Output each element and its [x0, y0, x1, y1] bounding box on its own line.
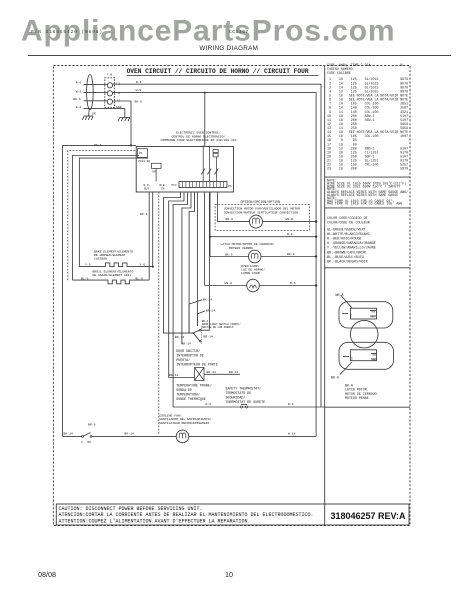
svg-text:NO: NO — [372, 311, 376, 314]
svg-text:ALWAYS REPLACE WIRES WITH SAME: ALWAYS REPLACE WIRES WITH SAME GAUGE — [327, 193, 398, 197]
thermostat S2 — [241, 406, 243, 408]
main circuit — [63, 68, 325, 444]
right column: wire table, notes, color code, latch motor — [327, 63, 408, 264]
footer — [38, 570, 233, 579]
svg-text:23 18 200: 23 18 200 5979 — [327, 167, 408, 171]
svg-text:NO: NO — [373, 354, 377, 357]
svg-text:R-6: R-6 — [76, 81, 82, 85]
wire W-9 bus — [113, 93, 317, 437]
wire cooling fan right — [189, 435, 316, 437]
supply cable bundle — [87, 75, 94, 110]
svg-text:L2: L2 — [116, 82, 120, 86]
svg-text:GR: GR — [92, 112, 96, 116]
svg-text:IN: IN — [161, 188, 165, 191]
svg-text:INTERRUPTEUR DE PORTE: INTERRUPTEUR DE PORTE — [176, 362, 218, 366]
svg-text:TERMOSTATO DE: TERMOSTATO DE — [226, 391, 252, 395]
svg-text:L1: L1 — [117, 98, 121, 102]
svg-text:SEGURIDAD/: SEGURIDAD/ — [226, 396, 246, 400]
latch switch upper body — [339, 302, 393, 328]
svg-text:Y.-YELLOW/AMARILLO/JAUNE: Y.-YELLOW/AMARILLO/JAUNE — [327, 246, 376, 251]
wire cooling fan left — [63, 435, 82, 437]
svg-text:BR-14: BR-14 — [204, 334, 213, 338]
svg-text:BL.-BLUE/AZUL/BLEU: BL.-BLUE/AZUL/BLEU — [327, 255, 364, 260]
motor cooling fan M3 — [176, 430, 189, 443]
svg-text:GL-GREEN/VERDE/VERT: GL-GREEN/VERDE/VERT — [327, 227, 366, 232]
svg-text:PUERTA/: PUERTA/ — [176, 358, 190, 362]
svg-text:O.-ORANGE/NARANJA/ORANGE: O.-ORANGE/NARANJA/ORANGE — [327, 241, 376, 246]
svg-text:MOTEUR VERROU: MOTEUR VERROU — [229, 246, 253, 250]
wire latch motor — [210, 256, 248, 258]
svg-text:CODE CALIBRE: CODE CALIBRE — [327, 71, 351, 75]
wire broil return — [148, 192, 150, 280]
node bake junction — [152, 266, 154, 268]
latch motor cam circle — [350, 320, 378, 348]
motor convection M1 — [250, 215, 263, 228]
svg-text:VENTILATEUR REFROIDISSEMENT: VENTILATEUR REFROIDISSEMENT — [159, 421, 209, 425]
svg-text:R-6: R-6 — [206, 402, 212, 406]
svg-text:CCS367: CCS367 — [229, 29, 249, 35]
title underline — [127, 74, 319, 76]
svg-text:ATTENTION:COUPEZ L'ALIMENTATIO: ATTENTION:COUPEZ L'ALIMENTATION AVANT D'… — [59, 518, 251, 524]
svg-text:WIRE SIZE UL 3321 600V 150°C /: WIRE SIZE UL 3321 600V 150°C / SAFETY — [327, 184, 400, 188]
terminal block T.B. — [105, 78, 115, 108]
svg-text:318046257 REV:A: 318046257 REV:A — [331, 511, 407, 521]
svg-text:INTERRUPTOR DE: INTERRUPTOR DE — [176, 353, 204, 357]
svg-text:MAX TEMP UL 1015 FOR LG CABLE: MAX TEMP UL 1015 FOR LG CABLE 105° AWG — [327, 202, 402, 206]
wire door switch left drop — [164, 192, 193, 333]
svg-text:OVEN CIRCUIT // CIRCUITO DE HO: OVEN CIRCUIT // CIRCUITO DE HORNO // CIR… — [127, 68, 309, 75]
svg-text:10: 10 — [225, 570, 233, 579]
wire leader BK-A — [340, 362, 352, 375]
wire bundle drop 197 — [197, 311, 205, 326]
switch door S1 — [193, 332, 195, 334]
svg-text:R-5: R-5 — [290, 281, 296, 285]
svg-text:THERMOSTAT DE SURETE: THERMOSTAT DE SURETE — [226, 400, 266, 404]
right column inner dividers — [325, 176, 410, 178]
convection fan option box — [215, 205, 309, 231]
svg-text:BK.-BLACK/NEGRO/NOIR: BK.-BLACK/NEGRO/NOIR — [327, 260, 368, 265]
wire oven lamp — [205, 285, 247, 287]
latch switch lower contacts — [351, 350, 377, 361]
wire R-6 bus — [113, 84, 322, 407]
svg-text:G-8: G-8 — [76, 105, 82, 109]
op-amp control board U1 (EOC) — [136, 147, 233, 193]
outer dashed frame — [53, 66, 410, 526]
svg-text:BK-6: BK-6 — [135, 100, 143, 104]
ground earth — [118, 108, 130, 121]
svg-text:Y-6: Y-6 — [85, 263, 91, 267]
latch motor caption — [345, 384, 377, 401]
svg-text:R.-RED/ROJO/ROUGE: R.-RED/ROJO/ROUGE — [327, 237, 362, 242]
ground chassis — [82, 109, 93, 120]
svg-text:W-9: W-9 — [136, 88, 142, 92]
svg-text:TEMPERATURE PROBE/: TEMPERATURE PROBE/ — [176, 384, 212, 388]
svg-text:BR-14: BR-14 — [206, 309, 215, 313]
motor latch M2 — [248, 250, 261, 263]
wire broil feed — [72, 156, 138, 281]
supply wires into T.B. — [84, 85, 125, 109]
wire bundle drop 173 — [173, 192, 187, 407]
svg-text:BR-14: BR-14 — [207, 370, 216, 374]
bottom caution — [56, 504, 409, 525]
wire bake feed — [79, 158, 148, 267]
svg-text:2X11 R2: 2X11 R2 — [138, 160, 150, 163]
wire probe left drop — [169, 192, 195, 378]
svg-text:KM: KM — [153, 171, 157, 174]
svg-text:BK-8: BK-8 — [226, 217, 234, 221]
svg-text:PT3: PT3 — [172, 184, 177, 187]
resistor bake element — [79, 263, 152, 267]
svg-text:COMMANDE FOUR ELECTRONIQUE EN: COMMANDE FOUR ELECTRONIQUE EN 240/208 VA… — [161, 138, 237, 142]
svg-text:SONDA DE: SONDA DE — [176, 388, 192, 392]
svg-text:W9-A: W9-A — [225, 281, 233, 285]
svg-text:LAMPE FOUR: LAMPE FOUR — [241, 271, 260, 275]
svg-text:08/08: 08/08 — [38, 570, 56, 579]
wire leader WR-A — [341, 296, 352, 309]
component IE — [213, 149, 218, 157]
oven cavity dashed box — [68, 151, 159, 435]
wire safety thermostat drop — [204, 192, 206, 286]
svg-text:CAUTION: DISCONNECT POWER BEFO: CAUTION: DISCONNECT POWER BEFORE SERVICI… — [59, 506, 203, 512]
wire bundle drop 189 — [189, 300, 202, 333]
svg-text:C: C — [351, 358, 353, 362]
svg-text:P1: P1 — [139, 152, 143, 155]
svg-text:P/N 316455420 (0608): P/N 316455420 (0608) — [31, 29, 103, 35]
svg-text:C: C — [350, 315, 352, 319]
latch switch lower body — [339, 342, 394, 369]
svg-text:BK-5: BK-5 — [225, 252, 233, 256]
resistor broil element — [72, 280, 149, 284]
header publication number — [28, 29, 451, 56]
switch fan S3 — [82, 436, 84, 438]
svg-text:BK-6: BK-6 — [140, 212, 148, 216]
connector P1 — [137, 149, 147, 158]
svg-text:BR-14: BR-14 — [229, 370, 238, 374]
wire W-8 — [210, 236, 316, 238]
svg-text:TEMPERATURA/: TEMPERATURA/ — [176, 393, 200, 397]
svg-text:T.B.: T.B. — [107, 73, 115, 77]
svg-text:BK-14: BK-14 — [125, 432, 134, 436]
relay KM — [152, 163, 162, 168]
wire probe right — [204, 373, 240, 375]
wire bake return — [152, 192, 154, 267]
svg-text:BK-14: BK-14 — [169, 373, 178, 377]
svg-text:ATENCION:CORTAR LA CORRIENTE A: ATENCION:CORTAR LA CORRIENTE ANTES DE RE… — [59, 512, 314, 518]
svg-text:OUT: OUT — [144, 188, 149, 191]
svg-text:N: N — [118, 91, 120, 95]
svg-text:DOOR SWITCH/: DOOR SWITCH/ — [176, 349, 200, 353]
latch switch upper contacts — [351, 308, 377, 319]
svg-text:Y-6: Y-6 — [140, 263, 146, 267]
wire cooling fan mid — [92, 435, 176, 437]
svg-text:WL-WHITE/BLANCO/BLANC: WL-WHITE/BLANCO/BLANC — [327, 232, 370, 237]
svg-text:WIRING DIAGRAM: WIRING DIAGRAM — [199, 45, 258, 52]
wire bundle drop 182 — [182, 192, 191, 344]
svg-text:W-14: W-14 — [288, 432, 296, 436]
svg-text:BR-14: BR-14 — [182, 341, 191, 345]
svg-text:W-8: W-8 — [287, 232, 293, 236]
svg-text:COLOR/CODE DE COULEUR: COLOR/CODE DE COULEUR — [327, 220, 370, 225]
svg-text:OPTION/OPCION/OPTION: OPTION/OPCION/OPTION — [241, 200, 281, 204]
temperature probe connector — [195, 368, 205, 381]
svg-text:W-8: W-8 — [76, 89, 82, 93]
wire door switch right drop — [201, 192, 209, 330]
svg-text:R-6: R-6 — [288, 402, 294, 406]
svg-text:CUISSON: CUISSON — [94, 257, 107, 261]
svg-text:BK-14: BK-14 — [203, 298, 212, 302]
lamp DS1 — [247, 279, 260, 292]
latch motor assembly drawing — [331, 293, 394, 400]
svg-text:BR-9: BR-9 — [88, 422, 96, 426]
relay contacts K1 K2 K3 — [201, 146, 218, 182]
wire safety thermostat to R-6 bus — [173, 406, 325, 408]
watermark — [21, 15, 395, 48]
svg-text:W9-B: W9-B — [286, 217, 294, 221]
svg-text:SAFETY THERMOSTAT/: SAFETY THERMOSTAT/ — [226, 387, 262, 391]
svg-text:DE ASADO/ELEMENT GRIL: DE ASADO/ELEMENT GRIL — [93, 273, 132, 277]
svg-text:BR.-BROWN/CAFE/BRUN: BR.-BROWN/CAFE/BRUN — [327, 250, 366, 255]
wire convection feed — [218, 192, 250, 222]
svg-text:BK-A: BK-A — [331, 376, 339, 380]
svg-text:R-6: R-6 — [136, 80, 142, 84]
svg-text:BK-14: BK-14 — [175, 335, 184, 339]
svg-text:BK-9: BK-9 — [287, 252, 295, 256]
wire BK-6 from L1 — [63, 101, 137, 436]
svg-text:SWITCH DE LUZ PUERTA: SWITCH DE LUZ PUERTA — [202, 326, 234, 329]
svg-text:NO: NO — [88, 441, 92, 444]
svg-text:BK-14: BK-14 — [64, 432, 73, 436]
svg-text:CONVECCION/MOTEUR VENTILATEUR: CONVECCION/MOTEUR VENTILATEUR CONVECTION — [224, 210, 298, 214]
connector P6 strip — [179, 182, 227, 188]
svg-text:BK-6: BK-6 — [73, 97, 81, 101]
svg-text:BK-6: BK-6 — [94, 143, 102, 147]
right column divider — [324, 66, 326, 505]
svg-text:MOTEUR PENNE: MOTEUR PENNE — [345, 396, 369, 400]
svg-text:SONDE THERMIQUE: SONDE THERMIQUE — [176, 397, 206, 401]
svg-text:P6: P6 — [228, 185, 232, 188]
